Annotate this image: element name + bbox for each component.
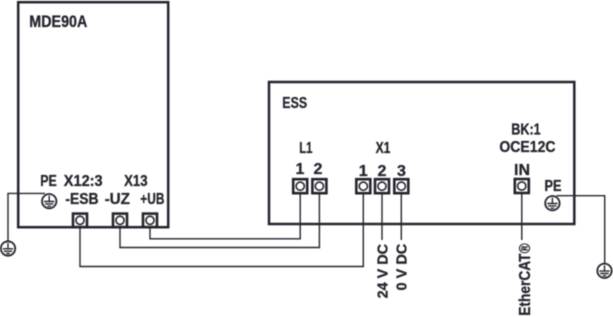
earth symbol left xyxy=(1,241,15,255)
terminal -UZ xyxy=(113,214,127,228)
svg-text:+UB: +UB xyxy=(140,191,164,208)
svg-text:EtherCAT®: EtherCAT® xyxy=(517,243,534,316)
svg-text:-UZ: -UZ xyxy=(105,191,131,208)
terminal X1.1 xyxy=(356,179,370,193)
svg-text:PE: PE xyxy=(40,173,57,190)
wire -ESB to X1.1 xyxy=(80,194,363,266)
earth symbol right xyxy=(597,264,611,278)
PE symbol (ESS) xyxy=(545,196,559,210)
svg-text:3: 3 xyxy=(397,163,406,180)
svg-text:OCE12C: OCE12C xyxy=(499,139,555,156)
svg-text:24 V DC: 24 V DC xyxy=(375,244,391,299)
wire X1.2 down (24 V DC) xyxy=(381,194,383,240)
terminal L1.1 xyxy=(293,179,307,193)
terminal X1.2 xyxy=(375,179,389,193)
svg-text:BK:1: BK:1 xyxy=(511,121,541,138)
svg-text:IN: IN xyxy=(514,162,530,179)
wire +UB to L1.1 xyxy=(150,194,300,238)
wire PE (ESS) to earth right xyxy=(557,196,605,264)
box ESS xyxy=(269,82,574,224)
svg-text:0 V DC: 0 V DC xyxy=(394,243,410,290)
terminal +UB xyxy=(143,214,157,228)
svg-text:2: 2 xyxy=(378,163,387,180)
svg-text:X1: X1 xyxy=(376,140,391,157)
wire IN down (EtherCAT) xyxy=(521,194,523,240)
svg-text:ESS: ESS xyxy=(282,95,307,112)
svg-text:X12:3: X12:3 xyxy=(64,173,103,190)
svg-text:L1: L1 xyxy=(299,140,312,157)
svg-text:PE: PE xyxy=(545,178,562,195)
wire X1.3 down (0 V DC) xyxy=(400,194,402,240)
svg-text:1: 1 xyxy=(296,161,305,178)
wire PE (MDE90A) to earth left xyxy=(8,193,45,241)
terminal L1.2 xyxy=(312,179,326,193)
box MDE90A xyxy=(18,2,168,227)
terminal -ESB xyxy=(73,214,87,228)
svg-text:MDE90A: MDE90A xyxy=(29,12,87,31)
terminal X1.3 xyxy=(394,179,408,193)
terminal IN xyxy=(515,179,529,193)
wire -UZ to L1.2 xyxy=(120,194,319,247)
PE symbol (MDE90A) xyxy=(42,194,56,208)
svg-text:1: 1 xyxy=(359,163,368,180)
svg-text:X13: X13 xyxy=(124,173,148,190)
svg-text:2: 2 xyxy=(314,161,323,178)
svg-text:-ESB: -ESB xyxy=(65,191,98,208)
